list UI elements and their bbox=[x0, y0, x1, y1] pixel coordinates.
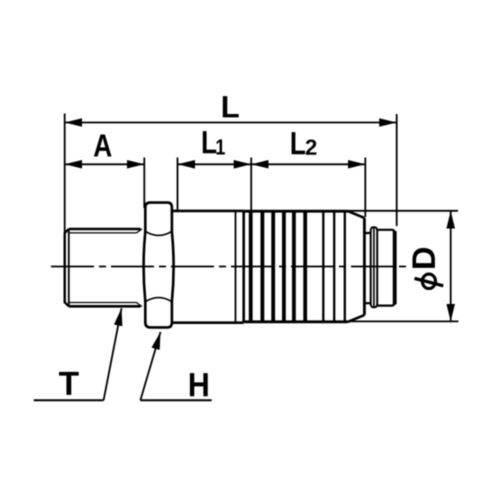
dimension A bbox=[65, 158, 145, 209]
label phiD - phi symbol circle bbox=[422, 274, 435, 288]
label T bbox=[59, 372, 79, 395]
dimension phi D bbox=[348, 211, 458, 322]
knurled sleeve (socket body) bbox=[244, 211, 365, 322]
label L bbox=[223, 96, 239, 117]
leader H bbox=[140, 332, 211, 400]
label L1 bbox=[203, 131, 216, 153]
tail rings bbox=[371, 227, 378, 307]
label H bbox=[190, 373, 208, 396]
label L2 bbox=[292, 132, 305, 154]
dimension L2 bbox=[251, 158, 365, 218]
centerline bbox=[51, 266, 407, 268]
label L1 subscript bbox=[216, 139, 224, 154]
dimension L bbox=[65, 114, 397, 234]
end cap bbox=[377, 230, 395, 306]
tail neck bbox=[365, 233, 371, 303]
label A bbox=[94, 134, 112, 156]
label phiD - D (rotated) bbox=[412, 248, 434, 268]
male thread T (left stub) bbox=[65, 229, 142, 307]
leader T bbox=[34, 308, 122, 400]
label phiD - phi symbol slash bbox=[415, 278, 444, 285]
dimension L1 bbox=[178, 158, 252, 212]
sleeve right-zone lines bbox=[323, 212, 345, 321]
hex nut H bbox=[144, 203, 174, 328]
sleeve ribs bbox=[251, 212, 306, 321]
neck between hex and sleeve bbox=[173, 211, 244, 323]
label L2 subscript bbox=[306, 139, 317, 154]
